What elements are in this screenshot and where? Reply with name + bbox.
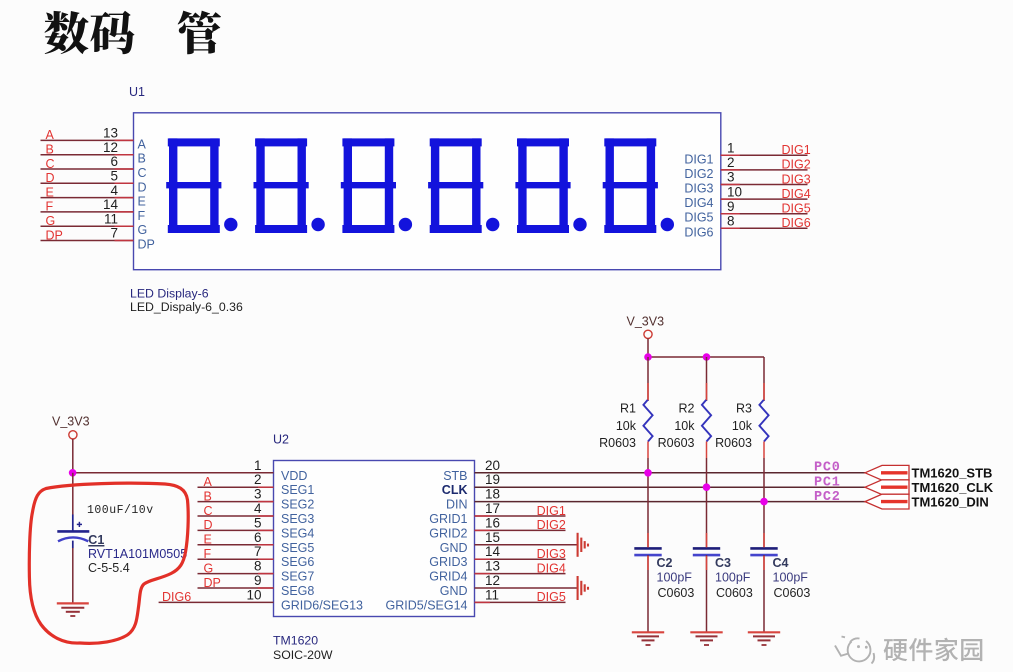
svg-text:SEG1: SEG1 xyxy=(281,483,314,497)
ground symbol (rotated) xyxy=(578,576,588,600)
svg-text:DIG3: DIG3 xyxy=(782,172,811,186)
wire E to U2 pin 6 xyxy=(198,544,274,546)
junction xyxy=(644,353,652,361)
svg-text:DIG1: DIG1 xyxy=(782,143,811,157)
svg-text:3: 3 xyxy=(727,170,735,185)
svg-text:C2: C2 xyxy=(657,556,673,570)
resistor R2 zigzag xyxy=(702,400,711,442)
svg-text:C0603: C0603 xyxy=(716,586,753,600)
U1 LED display body xyxy=(134,113,721,270)
wire D to U2 pin 5 xyxy=(198,529,274,531)
svg-text:DIG6: DIG6 xyxy=(684,225,713,239)
port TM1620_CLK xyxy=(865,480,909,495)
junction R2-CLK xyxy=(703,483,711,491)
svg-text:10: 10 xyxy=(727,184,742,199)
svg-text:DIG2: DIG2 xyxy=(684,167,713,181)
svg-text:LED_Dispaly-6_0.36: LED_Dispaly-6_0.36 xyxy=(130,300,243,314)
svg-text:7: 7 xyxy=(110,226,118,241)
svg-text:20: 20 xyxy=(485,458,500,473)
svg-text:A: A xyxy=(138,137,147,151)
svg-text:E: E xyxy=(46,185,54,199)
svg-text:D: D xyxy=(204,518,213,532)
wire C4 to ground xyxy=(763,555,765,632)
wire CLK xyxy=(475,486,866,488)
wire G to U2 pin 8 xyxy=(198,573,274,575)
svg-text:SEG2: SEG2 xyxy=(281,498,314,512)
svg-text:4: 4 xyxy=(110,183,118,198)
svg-text:F: F xyxy=(46,200,54,214)
svg-text:DIG1: DIG1 xyxy=(537,504,566,518)
wire DIG3 from U2 pin 14 xyxy=(475,558,566,560)
svg-text:12: 12 xyxy=(103,140,118,155)
svg-text:10: 10 xyxy=(246,587,261,602)
capacitor C2 xyxy=(634,547,661,550)
port TM1620_DIN wire stub xyxy=(881,500,908,503)
svg-text:D: D xyxy=(138,180,147,194)
svg-text:DIG5: DIG5 xyxy=(537,590,566,604)
svg-text:A: A xyxy=(204,475,213,489)
U1 pin 6 (C) wire xyxy=(41,168,134,170)
svg-text:18: 18 xyxy=(485,487,500,502)
svg-text:R2: R2 xyxy=(679,402,695,416)
svg-text:DIG4: DIG4 xyxy=(782,187,811,201)
ground symbol under C4 xyxy=(748,631,780,633)
svg-text:100pF: 100pF xyxy=(657,571,693,585)
svg-text:C4: C4 xyxy=(773,556,789,570)
svg-text:V_3V3: V_3V3 xyxy=(52,414,90,428)
seven-segment digit 6 xyxy=(603,138,674,233)
wire STB xyxy=(475,472,866,474)
svg-text:R1: R1 xyxy=(620,402,636,416)
junction VDD node xyxy=(69,469,77,477)
svg-text:C1: C1 xyxy=(88,533,104,547)
svg-text:DIG5: DIG5 xyxy=(782,202,811,216)
svg-text:SEG8: SEG8 xyxy=(281,584,314,598)
svg-text:DP: DP xyxy=(46,228,63,242)
svg-text:DP: DP xyxy=(204,576,221,590)
port TM1620_CLK wire stub xyxy=(881,486,908,489)
svg-text:6: 6 xyxy=(254,530,262,545)
svg-text:2: 2 xyxy=(254,472,262,487)
svg-text:GND: GND xyxy=(440,584,468,598)
ground symbol under C3 xyxy=(690,631,722,633)
port TM1620_DIN xyxy=(865,494,909,509)
U1 pin 14 (F) wire xyxy=(41,211,134,213)
svg-text:GND: GND xyxy=(440,541,468,555)
svg-text:GRID6/SEG13: GRID6/SEG13 xyxy=(281,598,363,612)
wire 3V3 rail xyxy=(648,356,764,358)
wire R2 down xyxy=(706,458,708,547)
svg-text:5: 5 xyxy=(254,515,262,530)
svg-text:STB: STB xyxy=(443,469,467,483)
svg-text:DIG4: DIG4 xyxy=(684,196,713,210)
svg-text:B: B xyxy=(138,152,146,166)
svg-text:B: B xyxy=(46,143,54,157)
svg-text:TM1620_STB: TM1620_STB xyxy=(912,466,993,481)
svg-text:SEG6: SEG6 xyxy=(281,555,314,569)
wire C2 to ground xyxy=(647,555,649,632)
svg-text:17: 17 xyxy=(485,501,500,516)
wire DIG4 from U2 pin 13 xyxy=(475,573,566,575)
svg-text:C: C xyxy=(138,166,147,180)
svg-text:3: 3 xyxy=(254,487,262,502)
seven-segment digit 5 xyxy=(515,138,586,233)
wire DIG2 from U2 pin 16 xyxy=(475,529,566,531)
svg-text:E: E xyxy=(204,533,212,547)
svg-text:5: 5 xyxy=(110,169,118,184)
svg-text:CLK: CLK xyxy=(442,483,468,497)
svg-text:DIG3: DIG3 xyxy=(684,182,713,196)
svg-text:DIG4: DIG4 xyxy=(537,561,566,575)
U2 TM1620 body xyxy=(274,461,475,617)
svg-text:DP: DP xyxy=(138,238,155,252)
wire DP to U2 pin 9 xyxy=(198,587,274,589)
wire C3 to ground xyxy=(706,555,708,632)
U1 pin 13 (A) wire xyxy=(41,139,134,141)
U1 pin 8 (DIG6) wire xyxy=(721,227,808,229)
seven-segment digit 4 xyxy=(428,138,499,233)
svg-text:10k: 10k xyxy=(732,419,753,433)
svg-text:9: 9 xyxy=(727,199,735,214)
svg-text:100uF/10v: 100uF/10v xyxy=(87,504,154,517)
svg-text:6: 6 xyxy=(110,154,118,169)
U1 pin 5 (D) wire xyxy=(41,182,134,184)
wire rail to R1 xyxy=(647,357,649,401)
svg-text:8: 8 xyxy=(727,214,735,229)
port TM1620_STB xyxy=(865,465,909,480)
seven-segment digit 2 xyxy=(254,138,325,233)
port TM1620_STB wire stub xyxy=(881,471,908,474)
svg-text:R3: R3 xyxy=(736,402,752,416)
svg-text:SEG3: SEG3 xyxy=(281,512,314,526)
capacitor C1 (polarized) xyxy=(57,515,89,549)
U1 pin 7 (DP) wire xyxy=(41,240,134,242)
junction R1-STB xyxy=(644,469,652,477)
U1 pin 2 (DIG2) wire xyxy=(721,169,808,171)
svg-text:DIG1: DIG1 xyxy=(684,152,713,166)
svg-text:11: 11 xyxy=(104,211,118,226)
svg-text:14: 14 xyxy=(103,197,119,212)
svg-text:LED Display-6: LED Display-6 xyxy=(130,287,209,301)
svg-text:PC0: PC0 xyxy=(814,460,841,475)
U1 pin 10 (DIG4) wire xyxy=(721,198,808,200)
wire DIG6 to U2 pin 10 xyxy=(159,601,274,603)
watermark text 硬件家园 xyxy=(884,639,908,661)
svg-text:19: 19 xyxy=(485,472,500,487)
wire F to U2 pin 7 xyxy=(198,558,274,560)
wire down to C1 xyxy=(72,473,74,515)
svg-text:V_3V3: V_3V3 xyxy=(627,315,665,329)
svg-text:B: B xyxy=(204,489,212,503)
svg-text:SEG7: SEG7 xyxy=(281,570,314,584)
ground symbol under C1 xyxy=(57,602,89,604)
svg-text:SOIC-20W: SOIC-20W xyxy=(273,648,333,662)
svg-text:TM1620_CLK: TM1620_CLK xyxy=(912,480,994,495)
svg-text:PC1: PC1 xyxy=(814,475,841,490)
U1 pin 4 (E) wire xyxy=(41,197,134,199)
capacitor C3 xyxy=(693,547,720,550)
wire GND from U2 pin 12 xyxy=(475,587,578,589)
svg-text:F: F xyxy=(138,209,146,223)
U1 pin 11 (G) wire xyxy=(41,225,134,227)
svg-text:12: 12 xyxy=(485,573,500,588)
svg-text:14: 14 xyxy=(485,544,501,559)
ground symbol under C2 xyxy=(632,631,664,633)
svg-text:1: 1 xyxy=(727,141,735,156)
svg-text:GRID2: GRID2 xyxy=(429,526,467,540)
svg-text:4: 4 xyxy=(254,501,262,516)
svg-text:DIG2: DIG2 xyxy=(782,158,811,172)
svg-text:13: 13 xyxy=(103,126,118,141)
U1 pin 12 (B) wire xyxy=(41,154,134,156)
svg-text:G: G xyxy=(46,214,56,228)
wire DIG1 from U2 pin 17 xyxy=(475,515,566,517)
svg-text:11: 11 xyxy=(485,587,499,602)
svg-text:R0603: R0603 xyxy=(599,436,636,450)
svg-text:16: 16 xyxy=(485,515,500,530)
svg-text:A: A xyxy=(46,128,55,142)
svg-text:E: E xyxy=(138,195,146,209)
svg-text:D: D xyxy=(46,171,55,185)
wire DIG5 from U2 pin 11 xyxy=(475,601,566,603)
svg-text:DIG3: DIG3 xyxy=(537,547,566,561)
capacitor C4 xyxy=(750,547,777,550)
svg-text:SEG5: SEG5 xyxy=(281,541,314,555)
svg-text:C: C xyxy=(204,504,213,518)
svg-text:8: 8 xyxy=(254,559,262,574)
svg-text:GRID5/SEG14: GRID5/SEG14 xyxy=(386,598,468,612)
svg-text:C0603: C0603 xyxy=(658,586,695,600)
svg-text:100pF: 100pF xyxy=(773,571,809,585)
wire A to U2 pin 2 xyxy=(198,486,274,488)
svg-text:C0603: C0603 xyxy=(774,586,811,600)
svg-text:F: F xyxy=(204,547,212,561)
svg-text:10k: 10k xyxy=(674,419,695,433)
svg-text:R0603: R0603 xyxy=(658,436,695,450)
svg-text:10k: 10k xyxy=(616,419,637,433)
wire GND from U2 pin 15 xyxy=(475,544,578,546)
svg-text:G: G xyxy=(138,223,148,237)
svg-text:100pF: 100pF xyxy=(715,571,751,585)
svg-text:C-5-5.4: C-5-5.4 xyxy=(88,561,130,575)
svg-text:TM1620_DIN: TM1620_DIN xyxy=(912,494,989,509)
resistor R1 zigzag xyxy=(643,400,652,442)
wire R1 down xyxy=(647,458,649,547)
wire rail to R2 xyxy=(706,357,708,401)
junction xyxy=(703,353,711,361)
wire rail to R3 xyxy=(763,357,765,401)
svg-text:C: C xyxy=(46,157,55,171)
U1 pin 9 (DIG5) wire xyxy=(721,213,808,215)
svg-text:DIG2: DIG2 xyxy=(537,518,566,532)
svg-text:13: 13 xyxy=(485,559,500,574)
svg-text:VDD: VDD xyxy=(281,469,307,483)
hand-drawn red circle around C1 xyxy=(29,483,188,643)
svg-text:2: 2 xyxy=(727,155,735,170)
svg-text:GRID4: GRID4 xyxy=(429,570,467,584)
svg-text:GRID3: GRID3 xyxy=(429,555,467,569)
svg-text:U1: U1 xyxy=(129,85,145,99)
junction R3-DIN xyxy=(760,498,768,506)
ground symbol (rotated) xyxy=(578,533,588,557)
wire V_3V3 to VDD node xyxy=(72,439,74,473)
svg-text:RVT1A101M0505: RVT1A101M0505 xyxy=(88,547,187,561)
svg-text:U2: U2 xyxy=(273,433,289,447)
seven-segment digit 1 xyxy=(166,138,237,233)
wire DIN xyxy=(475,501,867,503)
watermark logo xyxy=(835,637,874,664)
U1 pin 1 (DIG1) wire xyxy=(721,154,808,156)
U1 pin 3 (DIG3) wire xyxy=(721,184,808,186)
wire C to U2 pin 4 xyxy=(198,515,274,517)
seven-segment digit 3 xyxy=(341,138,412,233)
svg-text:DIG6: DIG6 xyxy=(782,216,811,230)
svg-text:G: G xyxy=(204,561,214,575)
wire R3 down xyxy=(763,458,765,547)
wire C1 to ground xyxy=(72,548,74,604)
svg-text:C3: C3 xyxy=(715,556,731,570)
resistor R3 zigzag xyxy=(759,400,768,442)
svg-text:GRID1: GRID1 xyxy=(429,512,467,526)
svg-text:TM1620: TM1620 xyxy=(273,634,318,648)
wire VDD to U2 pin 1 xyxy=(73,472,274,474)
wire V_3V3 stub xyxy=(647,338,649,357)
svg-text:DIG5: DIG5 xyxy=(684,211,713,225)
svg-text:R0603: R0603 xyxy=(715,436,752,450)
svg-text:9: 9 xyxy=(254,573,262,588)
wire B to U2 pin 3 xyxy=(198,501,274,503)
title text 数码管 xyxy=(45,11,89,54)
svg-text:15: 15 xyxy=(485,530,500,545)
svg-text:DIN: DIN xyxy=(446,498,468,512)
svg-text:1: 1 xyxy=(254,458,262,473)
svg-text:SEG4: SEG4 xyxy=(281,526,314,540)
svg-text:7: 7 xyxy=(254,544,262,559)
svg-text:PC2: PC2 xyxy=(814,490,841,505)
